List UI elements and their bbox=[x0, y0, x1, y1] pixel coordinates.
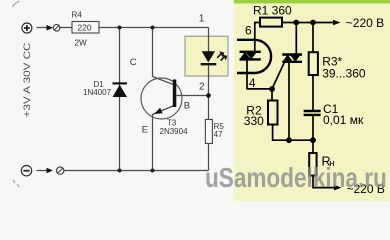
svg-text:6: 6 bbox=[245, 24, 252, 38]
LED bbox=[201, 51, 228, 64]
minus terminal bbox=[21, 166, 31, 176]
top rail junction dots bbox=[293, 20, 299, 26]
triac MT2 vertical bbox=[295, 23, 297, 55]
svg-text:2W: 2W bbox=[75, 39, 88, 48]
svg-text:4: 4 bbox=[249, 76, 256, 90]
top arrow bbox=[333, 20, 341, 26]
pin 4 wire: down then right to node bbox=[247, 59, 272, 89]
D1 branch vertical bbox=[119, 28, 121, 171]
svg-text:330: 330 bbox=[244, 114, 264, 128]
R2 bottom corner to bottom line bbox=[273, 125, 313, 141]
svg-text:R4: R4 bbox=[72, 11, 83, 20]
junction node 2 bbox=[206, 93, 211, 98]
opto-triac symbol bbox=[240, 52, 261, 60]
svg-text:1: 1 bbox=[199, 14, 205, 25]
opto-triac enclosure (D arc) bbox=[237, 40, 271, 73]
junction top rail at collector bbox=[151, 26, 155, 30]
resistor R5 bbox=[205, 120, 224, 144]
R3 top vertical bbox=[312, 23, 314, 53]
svg-text:220: 220 bbox=[78, 23, 92, 33]
wire - terminal to arrow bbox=[37, 170, 48, 172]
Rn bottom corner to arrow bbox=[313, 176, 335, 188]
svg-text:47: 47 bbox=[214, 130, 223, 139]
svg-text:E: E bbox=[142, 124, 148, 135]
collector vertical bbox=[152, 28, 154, 77]
optocoupler LED box bbox=[185, 36, 228, 76]
resistor R1 bbox=[253, 3, 292, 26]
emitter diagonal bbox=[153, 106, 175, 115]
svg-text:2N3904: 2N3904 bbox=[160, 127, 189, 136]
svg-text:+3V A 30V CC: +3V A 30V CC bbox=[22, 42, 32, 118]
junction bus at emitter bbox=[151, 169, 155, 173]
main triac VS1 bbox=[282, 54, 302, 62]
base wire bbox=[176, 95, 208, 97]
bottom bus bbox=[64, 170, 209, 172]
diode D1 bbox=[83, 80, 127, 97]
svg-text:0,01 мк: 0,01 мк bbox=[323, 113, 364, 127]
collector diagonal bbox=[153, 77, 175, 85]
wire R5 bottom to bus bbox=[208, 144, 210, 171]
right image yellow background bbox=[234, 2, 390, 201]
junction top rail at D1 bbox=[118, 26, 122, 30]
wire LED anode down bbox=[208, 28, 210, 52]
gate diagonal bbox=[272, 62, 285, 89]
svg-text:R1 360: R1 360 bbox=[253, 3, 292, 17]
svg-text:2: 2 bbox=[199, 82, 205, 93]
capacitor C1 bbox=[304, 102, 364, 127]
arrow to - connector bbox=[47, 168, 54, 174]
emitter arrow bbox=[154, 108, 163, 114]
triac MT1 vertical bbox=[288, 62, 290, 140]
svg-text:B: B bbox=[184, 100, 190, 111]
resistor R4 bbox=[72, 11, 100, 48]
node dot pin4/gate/R2 bbox=[269, 86, 275, 92]
node down to R2 bbox=[271, 89, 273, 101]
junction bus at D1 bbox=[118, 169, 122, 173]
bottom arrow bbox=[334, 185, 342, 191]
light arrows bbox=[217, 54, 221, 58]
svg-text:C: C bbox=[130, 57, 137, 68]
resistor Rn bbox=[309, 153, 334, 176]
wire R4 to LED corner (top rail) bbox=[99, 27, 209, 29]
watermark fragment bottom-left bbox=[13, 180, 19, 187]
plus terminal bbox=[22, 23, 32, 33]
transistor T3 bbox=[130, 57, 190, 136]
resistor R3 bbox=[309, 52, 366, 80]
svg-text:uSamodelkina.ru: uSamodelkina.ru bbox=[205, 162, 387, 194]
base bar bbox=[173, 80, 177, 108]
svg-text:39...360: 39...360 bbox=[322, 66, 366, 80]
R3 bottom to C1 bbox=[312, 75, 314, 110]
svg-text:~220 В: ~220 В bbox=[346, 16, 384, 30]
wire open circle to R4 bbox=[60, 27, 72, 29]
C1 bottom to Rn bbox=[312, 115, 314, 153]
wire + terminal to arrow bbox=[37, 27, 48, 29]
- connector open circle bbox=[57, 167, 64, 174]
wire LED cathode down to node 2 bbox=[208, 65, 210, 120]
emitter vertical bbox=[152, 114, 154, 171]
bottom line junction dots bbox=[286, 137, 292, 143]
arrow to + connector bbox=[47, 25, 54, 31]
wire R1 left corner down to pin 6 bbox=[255, 23, 260, 52]
resistor R2 bbox=[244, 101, 278, 128]
green strip top of right image bbox=[234, 0, 390, 3]
svg-text:1N4007: 1N4007 bbox=[83, 88, 112, 97]
top rail from R1 to arrow bbox=[282, 22, 334, 24]
watermark fragment top-left corner bbox=[13, 1, 20, 7]
+ connector open circle bbox=[53, 25, 60, 32]
